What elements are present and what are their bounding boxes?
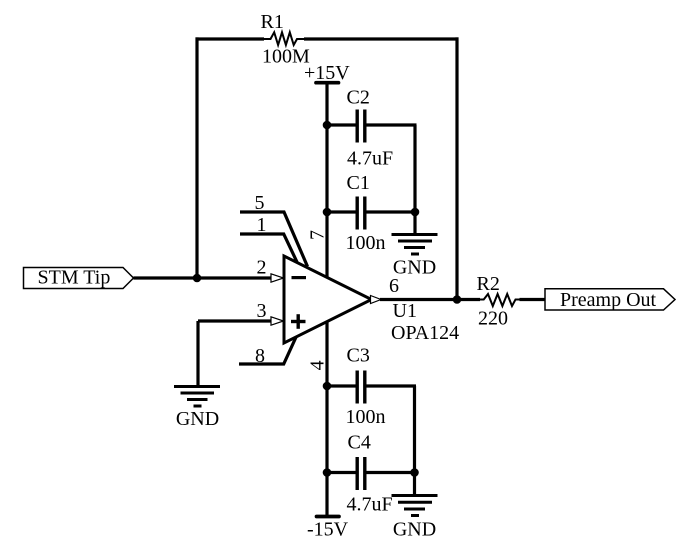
op-amp output arrow — [371, 296, 382, 304]
wire pin 3 horizontal — [198, 319, 272, 322]
svg-text:1: 1 — [257, 214, 267, 236]
capacitor C3 — [357, 371, 365, 404]
svg-text:100M: 100M — [262, 46, 310, 68]
svg-text:-15V: -15V — [307, 519, 349, 541]
node C1 left junction — [323, 208, 332, 217]
connector STM Tip — [24, 268, 134, 289]
wire C1 left — [327, 210, 356, 213]
svg-text:6: 6 — [389, 275, 399, 297]
svg-text:GND: GND — [393, 257, 436, 279]
wire C4 right — [367, 471, 415, 474]
op-amp minus input mark — [292, 276, 307, 279]
svg-text:GND: GND — [393, 519, 436, 541]
power +15V — [316, 81, 339, 85]
pin 2 arrow — [271, 274, 284, 282]
svg-text:8: 8 — [255, 345, 265, 367]
wire C2 right — [367, 123, 417, 126]
wire feedback right vertical — [455, 37, 458, 300]
svg-text:4.7uF: 4.7uF — [347, 494, 393, 516]
svg-text:3: 3 — [257, 300, 267, 322]
wire pin 4 vertical — [325, 321, 328, 516]
node C4 right junction — [410, 468, 419, 477]
svg-text:4.7uF: 4.7uF — [347, 148, 393, 170]
node input junction — [193, 274, 202, 283]
op-amp U1 triangle — [284, 256, 372, 343]
wire pin 1 — [240, 234, 297, 262]
node C1 right junction — [411, 208, 420, 217]
wire C3-C4 right vertical — [413, 386, 416, 473]
svg-text:+15V: +15V — [304, 62, 350, 84]
svg-text:7: 7 — [307, 230, 329, 240]
node output junction — [453, 295, 462, 304]
pin 3 arrow — [271, 317, 284, 325]
wire pin 3 vertical to ground — [196, 321, 199, 385]
capacitor C4 — [357, 457, 365, 490]
svg-text:R1: R1 — [261, 11, 284, 33]
wire caps right vertical — [413, 125, 416, 212]
connector Preamp Out — [545, 289, 675, 310]
svg-text:GND: GND — [176, 408, 219, 430]
svg-text:U1: U1 — [393, 300, 417, 322]
wire C4 left — [327, 471, 356, 474]
resistor R2 — [480, 294, 523, 306]
capacitor C2 — [357, 110, 365, 143]
wire C2 left — [327, 123, 356, 126]
wire V+ vertical pin 7 — [325, 83, 328, 278]
wire top feedback right segment — [304, 37, 459, 40]
svg-text:C2: C2 — [347, 87, 370, 109]
ground GND1 — [392, 212, 438, 254]
wire C3 left — [327, 384, 356, 387]
svg-text:5: 5 — [255, 192, 265, 214]
wire R2 to connector — [520, 298, 547, 301]
ground GND2 — [174, 387, 220, 407]
node C3 left junction — [323, 382, 332, 391]
svg-text:4: 4 — [307, 360, 329, 370]
svg-text:C1: C1 — [347, 172, 370, 194]
svg-text:2: 2 — [257, 257, 267, 279]
resistor R1 — [264, 32, 304, 45]
wire C1 right — [367, 210, 416, 213]
wire pin 8 — [239, 337, 296, 365]
svg-text:C3: C3 — [347, 345, 370, 367]
wire input to pin 2 — [134, 276, 272, 279]
svg-text:R2: R2 — [477, 273, 500, 295]
ground GND3 — [392, 473, 438, 516]
wire pin 5 — [240, 212, 308, 267]
svg-text:220: 220 — [478, 308, 508, 330]
op-amp plus input mark — [291, 314, 306, 329]
svg-text:100n: 100n — [346, 232, 386, 254]
wire top feedback left segment — [196, 37, 265, 40]
svg-text:STM Tip: STM Tip — [38, 267, 111, 289]
power -15V — [317, 515, 340, 519]
node C4 left junction — [323, 468, 332, 477]
svg-text:Preamp Out: Preamp Out — [560, 289, 657, 311]
wire C3 right — [367, 384, 417, 387]
wire output to R2 — [380, 298, 480, 301]
capacitor C1 — [357, 197, 365, 230]
node C2 left junction — [323, 121, 332, 130]
wire feedback left vertical — [195, 37, 198, 278]
svg-text:100n: 100n — [346, 406, 386, 428]
svg-text:C4: C4 — [348, 432, 371, 454]
svg-text:OPA124: OPA124 — [391, 322, 459, 344]
